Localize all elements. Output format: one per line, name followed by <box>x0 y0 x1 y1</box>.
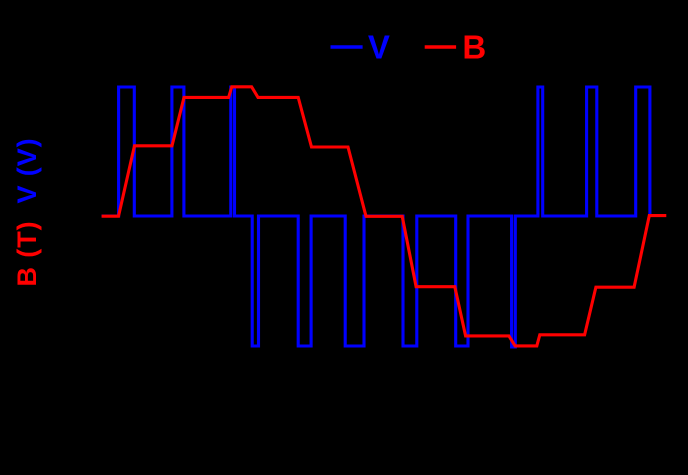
svg-text:B: B <box>462 29 486 66</box>
svg-text:B (T): B (T) <box>12 221 42 287</box>
svg-text:V: V <box>368 29 390 66</box>
svg-text:V (V): V (V) <box>12 137 42 203</box>
